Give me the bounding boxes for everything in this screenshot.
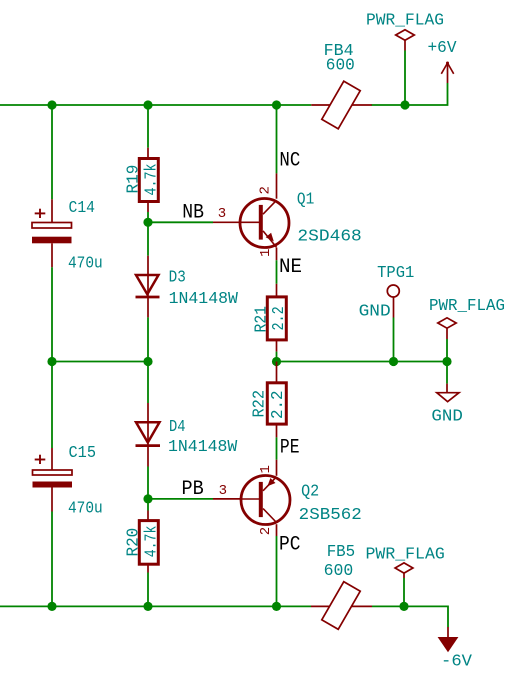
test point TPG1 [387,285,399,318]
svg-text:2.2: 2.2 [269,306,288,330]
label C14 [69,198,96,217]
ferrite bead FB5 body [322,582,360,630]
wire GND drop [446,362,448,384]
svg-text:2SD468: 2SD468 [297,226,361,245]
resistor R21 [267,284,286,352]
svg-text:+6V: +6V [428,38,457,57]
svg-text:4.7k: 4.7k [141,526,160,558]
junction node PB [143,494,152,503]
wire mid-left rail [52,361,148,363]
pin 2 wire Q1 [276,173,278,198]
power flag PWR_FLAG (bottom) label [366,544,445,563]
label NE [279,256,302,279]
label Q1 [297,190,314,209]
pin 1 wire Q1 [276,248,278,261]
svg-text:1N4148W: 1N4148W [169,289,238,308]
svg-text:GND: GND [359,302,391,321]
label R19 [124,165,143,194]
svg-text:2: 2 [258,186,274,194]
ferrite bead FB4 body [322,81,360,129]
svg-text:NB: NB [182,202,204,225]
label NC [279,150,300,173]
svg-text:TPG1: TPG1 [377,263,414,282]
junction top rail at R19 [143,100,152,109]
junction top rail at Q1 [272,100,281,109]
svg-text:PWR_FLAG: PWR_FLAG [366,544,445,563]
svg-text:FB5: FB5 [327,542,356,561]
wire PB to R20 [147,499,149,511]
wire NB to D3 [147,222,149,255]
ground GND symbol [437,384,459,402]
value 600 (FB5) [324,561,354,580]
svg-text:PWR_FLAG: PWR_FLAG [429,296,505,315]
svg-text:R22: R22 [250,390,269,418]
wire/pins FB4 [311,104,372,106]
value 1N4148W (D3) [169,289,238,308]
pin number 1 (Q1) [258,249,274,257]
svg-text:R19: R19 [124,165,143,194]
svg-text:NC: NC [279,150,300,173]
resistor R20 [139,511,158,573]
label GND (TPG1 net) [359,302,391,321]
svg-text:2SB562: 2SB562 [299,505,362,524]
junction mid-left at C14/C15 [47,357,56,366]
pin number 2 (Q1) [258,186,274,194]
wire bottom rail FB5 to corner [372,606,448,627]
power +6V label [428,38,457,57]
wire PWR_FLAG bottom stem [403,578,405,606]
pin number 3 (Q2) [219,483,227,499]
value 470u (C14) [68,254,103,273]
junction top rail at C14 [47,100,56,109]
svg-text:3: 3 [218,206,226,222]
value 2SD468 (Q1) [297,226,361,245]
value 1N4148W (D4) [168,437,237,456]
svg-text:2: 2 [258,527,274,535]
svg-text:600: 600 [326,55,355,74]
label D4 [169,417,186,436]
wire top rail FB4 to corner [372,83,448,105]
label PC [279,534,301,557]
wire R19 to NB node [147,212,149,222]
power flag PWR_FLAG (top) symbol [396,30,415,51]
label PB [182,478,204,501]
power +6V symbol [441,62,453,84]
wire R20 bottom [147,573,149,607]
power flag PWR_FLAG (top) label [366,10,444,29]
label GND (symbol) [431,407,463,426]
svg-text:Q1: Q1 [297,190,314,209]
pin 2 wire Q2 [276,524,278,536]
wire mid-right rail [277,361,448,363]
svg-text:600: 600 [324,561,354,580]
power -6V symbol [438,627,459,652]
svg-text:PWR_FLAG: PWR_FLAG [366,10,444,29]
wire R19 top [147,105,149,148]
capacitor C14 [32,199,72,267]
svg-text:PC: PC [279,534,301,557]
svg-text:1N4148W: 1N4148W [168,437,237,456]
label C15 [69,443,97,462]
svg-text:NE: NE [279,256,302,279]
pin number 3 (Q1) [218,206,226,222]
wire PE [276,437,278,459]
junction bottom rail at Q2 [272,602,281,611]
power flag PWR_FLAG (bottom) symbol [395,563,413,578]
label D3 [169,267,186,286]
junction mid rail at TPG1 [389,357,398,366]
svg-text:R21: R21 [252,306,271,333]
wire top rail left segment [0,104,311,106]
wire PB horizontal [148,498,213,500]
wire/pins FB5 [311,605,372,607]
wire NB horizontal [148,221,213,223]
svg-text:C14: C14 [69,198,96,217]
pin number 1 (Q2) [258,465,274,473]
svg-text:470u: 470u [68,254,103,273]
capacitor C15 [33,448,73,512]
power flag PWR_FLAG (middle) symbol [438,318,456,339]
junction bottom rail at C15 [47,602,56,611]
label R21 [252,306,271,333]
svg-text:D3: D3 [169,267,186,286]
value 2SB562 (Q2) [299,505,362,524]
svg-text:4.7k: 4.7k [142,163,161,195]
wire D4 bottom to PB [147,467,149,499]
svg-text:2.2: 2.2 [268,391,287,420]
label FB5 [327,542,356,561]
junction bottom rail at R20 [143,602,152,611]
junction mid-left at D3/D4 [143,357,152,366]
wire PWR_FLAG middle stem [446,339,448,362]
wire PC [276,536,278,606]
svg-text:GND: GND [431,407,463,426]
svg-text:PE: PE [280,437,300,460]
power -6V label [441,651,472,670]
value 2.2 (R22) [268,391,287,420]
wire D4 top [147,362,149,404]
junction mid rail at R21/R22 [272,357,281,366]
value 600 (FB4) [326,55,355,74]
wire bottom rail left [0,605,311,607]
resistor R19 [139,148,158,212]
wire R21 bottom [276,352,278,362]
svg-text:470u: 470u [68,498,103,517]
label TPG1 [377,263,414,282]
wire C14 top [51,105,53,199]
svg-text:Q2: Q2 [301,482,319,501]
pin 1 wire Q2 [276,460,278,476]
label NB [182,202,204,225]
value 2.2 (R21) [269,306,288,330]
wire TPG1 stem [393,318,395,362]
diode D4 [136,403,161,467]
wire Q1 collector [276,105,278,173]
pin number 2 (Q2) [258,527,274,535]
svg-text:R20: R20 [124,528,143,557]
wire to -6V [447,626,449,628]
wire C14 bottom [51,267,53,361]
pin 3 wire Q1 base [213,221,240,223]
svg-text:1: 1 [258,465,274,473]
junction node NB [143,218,152,227]
value 4.7k (R20) [141,526,160,558]
resistor R22 [267,362,286,438]
wire C15 top [51,362,53,449]
value 470u (C15) [68,498,103,517]
svg-text:-6V: -6V [441,651,472,670]
junction top rail at PWR_FLAG [400,100,409,109]
value 4.7k (R19) [142,163,161,195]
power flag PWR_FLAG (middle) label [429,296,505,315]
transistor Q1 body [240,199,289,248]
svg-text:PB: PB [182,478,204,501]
svg-text:D4: D4 [169,417,186,436]
wire PWR_FLAG top stem [404,51,406,106]
junction bottom rail at PWR_FLAG [399,602,408,611]
label PE [280,437,300,460]
svg-text:3: 3 [219,483,227,499]
transistor Q2 body [241,476,290,525]
label FB4 [324,41,354,60]
wire NE [276,260,278,284]
label R20 [124,528,143,557]
junction mid rail at PWR_FLAG/GND [442,357,451,366]
wire D3 bottom [147,317,149,361]
pin 3 wire Q2 base [213,498,241,500]
label Q2 [301,482,319,501]
wire FB4 right [371,104,373,106]
diode D3 [136,256,160,318]
wire C15 bottom [51,512,53,607]
label R22 [250,390,269,418]
svg-text:C15: C15 [69,443,97,462]
svg-text:1: 1 [258,249,274,257]
